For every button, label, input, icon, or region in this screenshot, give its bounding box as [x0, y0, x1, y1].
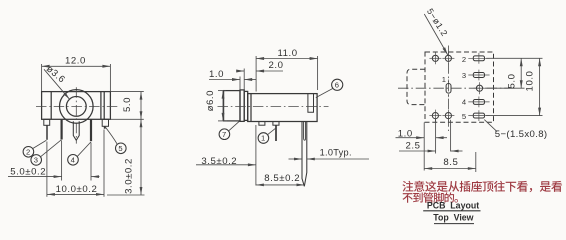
dim 5.0 ext lines — [110, 92, 143, 120]
pcb dim 2.5 line — [399, 150, 463, 153]
dim 10.0pm line — [47, 193, 104, 196]
pcb pad numbers — [442, 55, 467, 121]
svg-text:4: 4 — [462, 98, 467, 107]
center pin — [73, 121, 79, 140]
svg-text:5.0: 5.0 — [507, 74, 518, 89]
dim 3.0 line — [140, 119, 143, 195]
dim 5.0 text — [122, 97, 133, 112]
dim 1.0typ text — [320, 147, 352, 157]
label dia3.6 leader — [44, 69, 70, 99]
dim dia6 ticks — [218, 91, 227, 121]
svg-text:1.0Typ.: 1.0Typ. — [320, 147, 352, 157]
label 5-slot leader — [484, 120, 497, 132]
side view foot2 wire — [275, 125, 277, 141]
side view body — [248, 94, 317, 122]
mid ext line C — [255, 125, 257, 186]
svg-text:2.5: 2.5 — [406, 141, 421, 152]
label dia3.6 text — [45, 63, 68, 85]
balloon 1 — [258, 128, 276, 143]
svg-text:3: 3 — [34, 156, 39, 165]
title Top View — [433, 212, 474, 223]
svg-text:8.5: 8.5 — [443, 157, 458, 168]
svg-text:ø6.0: ø6.0 — [205, 90, 216, 111]
svg-text:12.0: 12.0 — [65, 56, 86, 67]
svg-text:2.0: 2.0 — [269, 60, 284, 71]
pcb bottom ext lines — [424, 119, 476, 172]
dim 11.0 ext lines — [256, 56, 318, 92]
svg-text:1.0: 1.0 — [209, 69, 224, 80]
svg-text:4: 4 — [71, 156, 76, 165]
dim dia6 text — [205, 90, 216, 111]
pin 5 stub — [104, 126, 106, 128]
pcb dim 10.0 — [525, 58, 542, 115]
svg-text:3.0±0.2: 3.0±0.2 — [123, 158, 134, 194]
svg-text:6: 6 — [335, 81, 340, 90]
pcb pad 1 slot — [446, 80, 451, 98]
label 5-dia1.2 leader — [424, 14, 448, 55]
pcb right ext lines — [485, 58, 543, 115]
label 5-slot text — [495, 129, 548, 140]
dim 1.0typ line — [289, 158, 370, 161]
pcb dim 8.5 text — [443, 157, 458, 168]
front view right tab lines — [101, 92, 104, 120]
front view body outline — [42, 92, 111, 120]
pcb dim 8.5 line — [424, 167, 476, 170]
balloon 3 — [31, 140, 61, 165]
svg-text:PCB Layout: PCB Layout — [427, 200, 479, 210]
front view vertical centerline — [75, 87, 77, 143]
pcb dim 2.5 text — [406, 141, 421, 152]
dim 1.0 text — [209, 69, 224, 80]
side view body inner line — [250, 94, 252, 122]
dim 5.0pm text — [10, 166, 46, 177]
title PCB Layout — [423, 200, 480, 210]
pin 4 ext line — [90, 143, 92, 181]
pin 4 wire — [90, 119, 92, 141]
svg-text:1: 1 — [442, 75, 447, 84]
dim 3.0 ext line — [107, 194, 145, 196]
pcb centerline V — [447, 46, 449, 132]
side view slot — [308, 94, 314, 113]
red note line 2 — [402, 192, 457, 202]
pin 2 foot — [44, 119, 50, 125]
svg-text:2: 2 — [26, 148, 31, 157]
balloon 6 — [316, 79, 343, 97]
pcb outline dashed — [425, 52, 494, 122]
red note line 1 — [402, 181, 562, 192]
svg-text:10.0: 10.0 — [525, 71, 536, 92]
pin 3 wire — [60, 119, 62, 139]
dim 8.5 text — [264, 173, 300, 184]
dim 11.0 line — [256, 57, 318, 60]
dim 3.5 text — [201, 156, 237, 167]
pcb notch dashed — [407, 69, 425, 104]
svg-text:11.0: 11.0 — [278, 48, 298, 59]
label 5-dia1.2 text — [425, 7, 450, 39]
svg-text:Top View: Top View — [433, 212, 473, 222]
svg-text:5: 5 — [118, 144, 123, 153]
dim 12.0 ext lines — [42, 64, 111, 91]
front view left tab line — [50, 92, 52, 120]
pcb centerline H — [398, 87, 517, 89]
balloon 5 — [105, 127, 126, 154]
svg-text:8.5±0.2: 8.5±0.2 — [264, 173, 300, 184]
dim 12.0 line — [42, 65, 111, 68]
pin 2 wire — [46, 125, 48, 140]
dim 11.0 text — [278, 48, 298, 59]
jack inner circle dia 3.6 — [66, 97, 86, 117]
pcb dim 1.0 line — [396, 136, 448, 139]
dim dia6 line — [222, 91, 225, 121]
svg-text:1: 1 — [261, 134, 266, 143]
dim 2.0 text — [269, 60, 284, 71]
dim 2.0 ext line — [243, 69, 245, 90]
svg-text:2: 2 — [462, 55, 467, 64]
dim 1.0 ext line — [239, 77, 241, 90]
pin 5 ext line — [103, 130, 105, 197]
side view barrel — [224, 91, 240, 121]
dim 1.0 line — [209, 78, 256, 81]
balloon 4 — [68, 142, 91, 165]
svg-text:5−(1.5x0.8): 5−(1.5x0.8) — [495, 129, 548, 140]
dim 12.0 text — [65, 56, 86, 67]
pcb dim 5.0 — [507, 58, 523, 88]
front view horizontal centerline — [36, 105, 118, 107]
dim 2.0 line — [236, 70, 283, 73]
side view right pins — [302, 122, 307, 187]
pin 2 ext line — [46, 142, 48, 197]
jack outer circle — [60, 90, 94, 124]
dim 5.0pm line — [8, 175, 100, 178]
pcb pads 4x slots — [468, 53, 489, 121]
svg-text:5: 5 — [462, 112, 467, 121]
pin 5 foot — [102, 119, 108, 126]
pcb holes 5x dia1.2 — [429, 52, 485, 121]
pin 3 ext line — [61, 141, 63, 181]
dim 5.0 line — [140, 92, 143, 120]
side view centerline — [218, 106, 329, 108]
svg-text:7: 7 — [222, 130, 227, 139]
dim 10.0pm text — [56, 184, 98, 195]
side view foot 2 — [273, 122, 279, 126]
svg-text:5.0: 5.0 — [122, 97, 133, 112]
svg-text:3: 3 — [462, 71, 467, 80]
side view foot 1 — [259, 122, 265, 126]
dim 3.0 text — [123, 158, 134, 194]
dim 8.5 line — [256, 184, 305, 187]
balloon 2 — [23, 140, 46, 157]
svg-text:5.0±0.2: 5.0±0.2 — [10, 166, 46, 177]
side view flange — [240, 90, 244, 122]
svg-text:10.0±0.2: 10.0±0.2 — [56, 184, 98, 195]
balloon 7 — [219, 121, 239, 139]
side view step — [244, 91, 248, 120]
pcb dim 1.0 text — [398, 129, 413, 140]
dim 3.5 line — [196, 163, 256, 166]
